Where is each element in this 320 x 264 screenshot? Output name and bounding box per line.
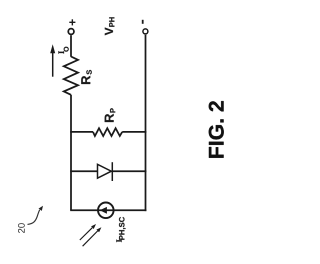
- photon arrow 1: [80, 224, 96, 240]
- lead line arrow for 20: [28, 206, 44, 225]
- current source IPH,SC body: [98, 203, 114, 219]
- label VPH: [105, 17, 115, 35]
- label IO: [58, 47, 68, 54]
- resistor RP: [93, 128, 122, 136]
- label -: [142, 20, 144, 24]
- wire left rail: [70, 95, 72, 211]
- resistor RS: [64, 57, 78, 95]
- label IPH,SC: [116, 217, 125, 242]
- diode D1: [98, 162, 113, 181]
- node + terminal: [68, 29, 74, 35]
- label RP: [105, 108, 116, 122]
- label +: [69, 19, 75, 25]
- wire RP branch right: [122, 131, 146, 133]
- wire diode branch right: [112, 170, 146, 172]
- wire right rail: [145, 35, 147, 211]
- wire RP branch left: [70, 131, 93, 133]
- wire from + terminal to RS: [70, 35, 72, 57]
- wire diode branch left: [70, 170, 97, 172]
- label RS: [81, 70, 91, 84]
- wire bottom branch: [70, 209, 146, 211]
- photon arrow 2: [83, 227, 102, 246]
- label FIG. 2: [209, 101, 224, 158]
- node - terminal: [143, 29, 148, 34]
- current source arrow: [100, 207, 107, 214]
- reference numeral 20: [18, 223, 25, 233]
- current arrow IO: [50, 44, 55, 76]
